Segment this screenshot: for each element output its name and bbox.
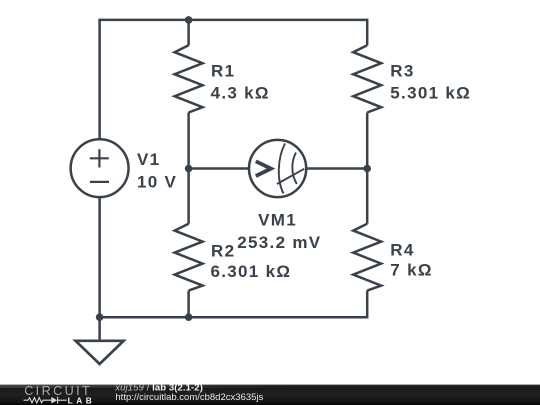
resistor R4 <box>353 224 381 291</box>
wire node A to R2 top <box>187 169 190 224</box>
V1 plus sign <box>90 149 109 167</box>
svg-text:LAB: LAB <box>68 395 96 405</box>
svg-text:6.301 kΩ: 6.301 kΩ <box>211 262 292 281</box>
wire R1 top lead <box>187 20 190 45</box>
junction ground node <box>96 313 104 321</box>
svg-text:V1: V1 <box>137 150 160 169</box>
V1 minus sign <box>90 181 109 183</box>
wire left rail upper (top rail to V1 top) <box>98 19 101 140</box>
wire top rail <box>100 19 368 22</box>
wire left rail lower (V1 bottom to ground node) <box>98 197 101 317</box>
wire R3 bottom to node B <box>366 113 369 169</box>
svg-text:http://circuitlab.com/cb8d2cx3: http://circuitlab.com/cb8d2cx3635js <box>115 392 263 403</box>
svg-text:R2: R2 <box>211 242 235 261</box>
voltmeter VM1 polarity chevron <box>256 161 271 176</box>
voltage source V1 circle <box>71 139 129 197</box>
svg-text:253.2 mV: 253.2 mV <box>237 233 321 252</box>
wire R1 bottom to node A <box>187 113 190 169</box>
footer top-left shine <box>0 385 300 388</box>
wire middle left (node A to voltmeter) <box>189 167 249 170</box>
resistor R1 <box>175 45 203 112</box>
wire R2 bottom lead <box>187 291 190 318</box>
logo resistor-diode glyph <box>24 397 67 404</box>
wire ground stub <box>98 317 101 341</box>
junction node B <box>363 165 371 173</box>
junction dot top <box>185 16 193 24</box>
wire bottom rail <box>100 316 368 319</box>
svg-text:7 kΩ: 7 kΩ <box>390 261 432 280</box>
junction bottom mid <box>185 313 193 321</box>
voltmeter VM1 circle <box>249 140 306 197</box>
voltmeter VM1 meter glyph arc 1 <box>279 144 285 194</box>
wire middle right (voltmeter to node B) <box>306 167 367 170</box>
wire R3 top lead <box>366 19 369 46</box>
voltmeter VM1 needle line <box>277 169 304 184</box>
junction node A <box>185 165 193 173</box>
svg-text:4.3 kΩ: 4.3 kΩ <box>211 84 270 103</box>
voltmeter VM1 meter glyph arc 2 <box>292 153 296 185</box>
logo diode triangle <box>51 397 57 404</box>
svg-text:10 V: 10 V <box>137 173 177 192</box>
svg-text:R4: R4 <box>390 240 414 259</box>
svg-text:R1: R1 <box>211 61 235 80</box>
svg-text:5.301 kΩ: 5.301 kΩ <box>390 84 471 103</box>
wire bottom-right vertical (R4 bottom to bottom rail) <box>366 291 369 319</box>
resistor R2 <box>175 224 203 291</box>
ground symbol <box>76 341 124 364</box>
svg-text:VM1: VM1 <box>258 210 297 229</box>
wire node B to R4 top <box>366 169 369 224</box>
svg-text:R3: R3 <box>390 61 414 80</box>
resistor R3 <box>353 45 381 112</box>
